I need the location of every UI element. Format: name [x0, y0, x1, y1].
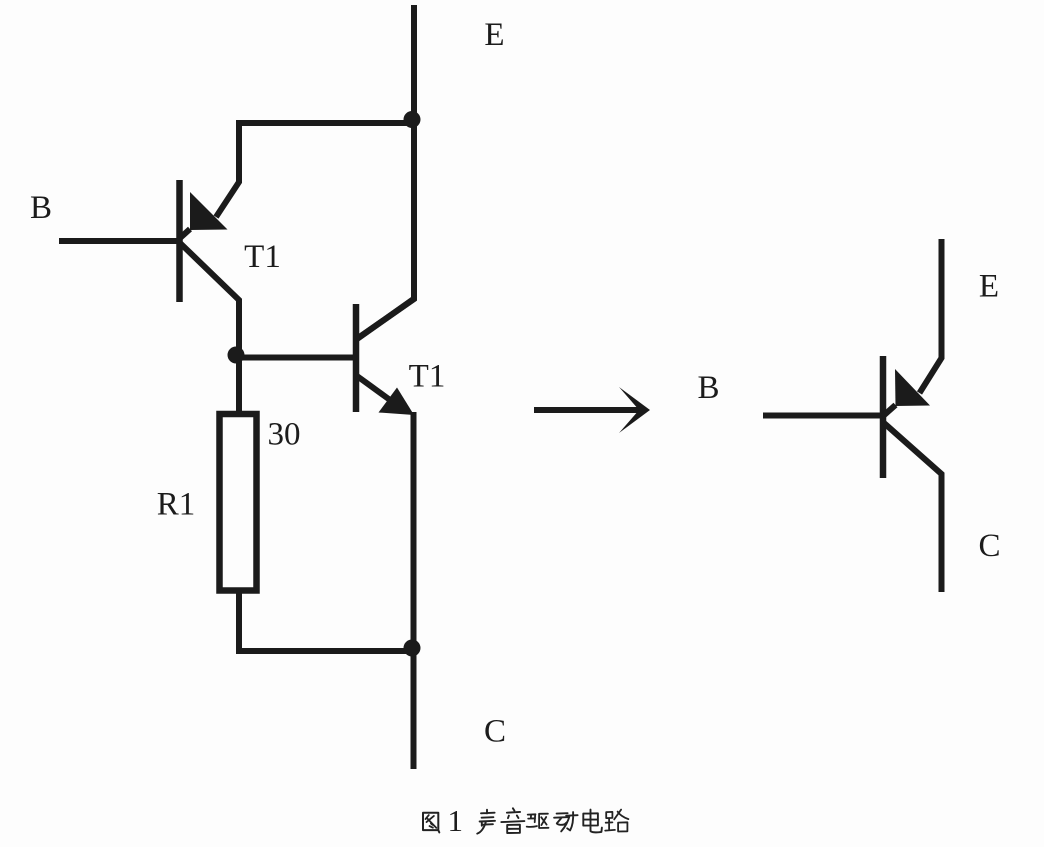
svg-text:C: C — [978, 528, 1000, 564]
svg-text:30: 30 — [268, 417, 301, 453]
svg-text:T1: T1 — [244, 239, 281, 275]
svg-text:B: B — [697, 370, 719, 406]
svg-text:E: E — [979, 269, 999, 305]
svg-text:T1: T1 — [409, 359, 446, 395]
svg-text:E: E — [484, 17, 504, 53]
svg-text:B: B — [30, 190, 52, 226]
svg-text:1: 1 — [447, 803, 463, 838]
svg-text:C: C — [484, 714, 506, 750]
svg-text:R1: R1 — [157, 487, 196, 523]
